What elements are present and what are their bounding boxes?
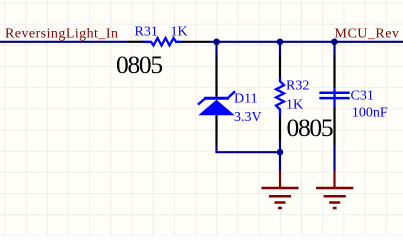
ground GND bars under C31: [316, 188, 353, 208]
ground GND bars under R32: [261, 188, 298, 208]
resistor R31 pin 2 (right lead, black): [181, 41, 210, 43]
svg-text:100nF: 100nF: [352, 106, 388, 121]
wire: short stub down from top wire to R32 pin: [279, 42, 281, 55]
svg-text:1K: 1K: [171, 24, 188, 39]
wire: short stub down from top wire to C31 pin: [333, 42, 335, 55]
resistor R31 pin 1 (left lead, black): [128, 41, 144, 43]
resistor R31 zigzag body: [143, 38, 181, 45]
svg-text:0805: 0805: [287, 113, 333, 142]
capacitor C31 top plate: [319, 92, 349, 95]
node junction dot at bottom of R32: [277, 149, 284, 156]
capacitor C31 bottom plate: [319, 97, 349, 100]
ground GND power port stem under R32: [279, 171, 281, 188]
svg-text:R31: R31: [135, 24, 158, 39]
resistor R32 pin 2 (bottom lead, black): [279, 117, 281, 141]
diode D11 cathode pin (black): [215, 55, 217, 97]
capacitor C31 pin 1 (top lead, black): [333, 55, 335, 88]
capacitor C31 symbol center stub (blue): [333, 88, 335, 107]
ground GND power port stem under C31: [333, 171, 335, 187]
node junction dot at D11 branch: [213, 39, 220, 46]
wire: horizontal segment from R31 to right edge (MCU_Rev net): [210, 41, 403, 43]
resistor R32 zigzag body: [276, 78, 284, 118]
svg-text:3.3V: 3.3V: [234, 110, 262, 125]
diode D11 zener bar left tail: [198, 99, 205, 105]
diode D11 anode pin (black): [215, 115, 217, 146]
wire: net ReversingLight_In horizontal segment left of R31: [0, 41, 128, 43]
wire: from R32 pin 2 through junction down to GND port: [279, 141, 281, 171]
svg-text:C31: C31: [351, 89, 374, 104]
svg-text:ReversingLight_In: ReversingLight_In: [5, 27, 118, 42]
svg-text:MCU_Rev: MCU_Rev: [335, 27, 400, 42]
diode D11 zener cathode bar: [204, 97, 229, 100]
svg-text:0805: 0805: [116, 50, 162, 79]
node junction dot at C31 branch: [331, 39, 338, 46]
capacitor C31 pin 2 (bottom lead, black): [333, 107, 335, 145]
diode D11 zener bar right tail: [229, 91, 236, 97]
resistor R32 pin 1 (top lead, black): [279, 55, 281, 78]
wire: L corner from D11 anode to bottom node: [217, 146, 281, 152]
svg-text:D11: D11: [234, 91, 258, 106]
diode D11 triangle (anode, filled): [198, 100, 234, 116]
node junction dot at R32 branch: [277, 39, 284, 46]
svg-text:R32: R32: [286, 79, 309, 94]
svg-text:1K: 1K: [286, 98, 303, 113]
wire: from C31 pin 2 down to GND port: [333, 145, 335, 171]
wire: short stub down from top wire to D11 pin: [215, 42, 217, 55]
